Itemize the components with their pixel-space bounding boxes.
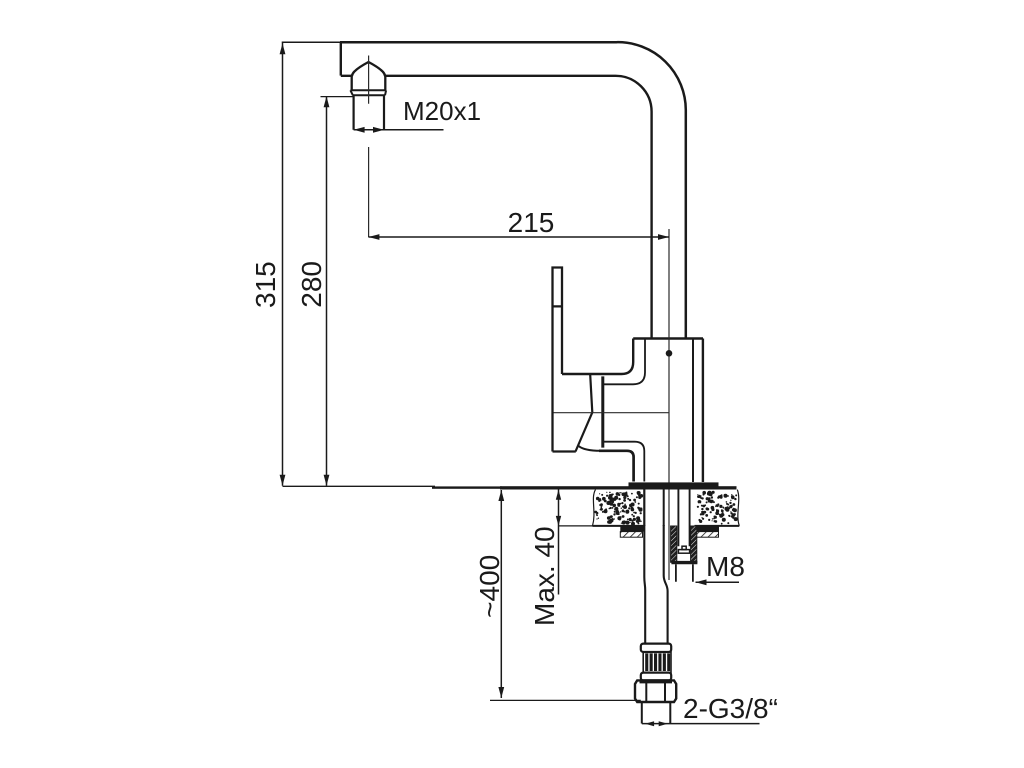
svg-text:M20x1: M20x1 xyxy=(403,96,481,126)
svg-text:Max. 40: Max. 40 xyxy=(529,526,560,626)
svg-text:280: 280 xyxy=(296,261,327,308)
svg-text:M8: M8 xyxy=(706,551,745,582)
svg-text:~400: ~400 xyxy=(474,555,505,618)
svg-text:215: 215 xyxy=(508,207,555,238)
svg-text:315: 315 xyxy=(250,261,281,308)
svg-text:2-G3/8“: 2-G3/8“ xyxy=(683,693,778,724)
